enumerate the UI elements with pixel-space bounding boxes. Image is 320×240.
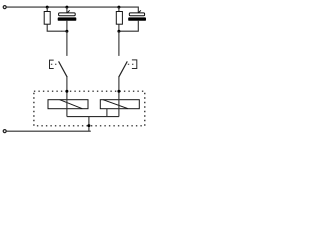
wire: S2 lower lead [118,77,120,91]
capacitor C2 top plate [129,13,144,16]
winding L2 diagonal [103,100,128,109]
wire: R2 bottom lead to node [118,24,120,31]
wire: L2 bottom stub [106,109,108,117]
wire: through L2 vertical [118,91,120,116]
switch S2 actuator bracket [132,60,137,69]
wire: node1 down to switch S1 [66,31,68,56]
node dot: bottom box exit [87,124,90,127]
switch S2 linkage dashes [128,63,134,65]
node dot: C1 top [65,6,68,9]
capacitor C1 polarity tick [68,10,70,12]
winding L1 (rect with diagonal) [48,100,88,109]
switch S1 actuator bracket [50,60,54,68]
wire: inner bottom horizontal [67,116,119,118]
node dot: RC1 bottom junction [65,30,68,33]
resistor R2 [116,12,122,25]
terminal X1 (top left) [3,6,6,9]
wire: C1 bottom lead [66,21,68,31]
wire: R2 top lead [118,7,120,11]
winding L1 diagonal [60,100,83,109]
node dot: box entry left [65,90,68,93]
wire: node2 down to switch S2 [118,31,120,56]
node dot: box entry right [117,90,120,93]
terminal X2 (bottom left) [3,130,6,133]
capacitor C1 top plate [59,13,76,16]
switch S1 blade [59,61,68,77]
capacitor C2 bottom plate [128,17,146,20]
capacitor C2 polarity tick [139,10,141,12]
winding L2 (rect with diagonal) [100,100,139,109]
wire: C2 bottom lead to node [119,21,138,31]
wire: through L1 vertical [66,91,68,116]
resistor R1 [44,12,50,25]
node dot: R2 top [117,6,120,9]
node dot: RC2 bottom junction [117,30,120,33]
wire: center drop to bottom rail [88,117,90,132]
wire: C1 top lead [66,7,68,13]
wire: bottom rail [6,130,90,132]
capacitor C1 bottom plate [58,17,77,20]
wire: R1 bottom lead to node [47,24,67,31]
wire: top rail from X1 to C2 [6,7,138,13]
wire: R1 top lead [46,7,48,11]
dashed enclosure (motor unit box) [34,91,145,126]
wire: S1 lower lead [66,77,68,91]
switch S1 linkage dashes [51,63,57,65]
switch S2 blade [119,61,128,77]
node dot: R1 top [46,6,49,9]
